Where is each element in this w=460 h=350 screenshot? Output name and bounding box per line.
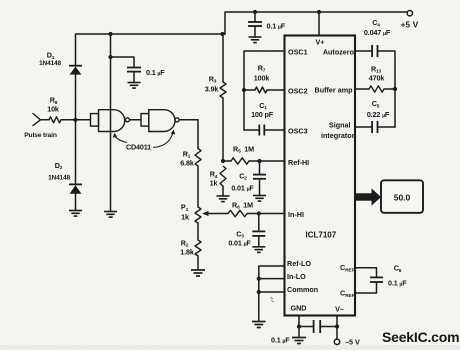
svg-text:1N4148: 1N4148 — [39, 60, 61, 67]
diode D1 — [69, 66, 82, 75]
wire below top-left cap to ground — [133, 72, 135, 82]
svg-text:V+: V+ — [316, 37, 325, 46]
ground below C3 — [252, 247, 265, 253]
wire R2 to ground — [197, 256, 199, 270]
svg-text:ICL7107: ICL7107 — [306, 230, 337, 239]
wire pulse input line — [41, 119, 50, 121]
display arrow — [355, 188, 381, 205]
svg-text:1k: 1k — [181, 212, 189, 221]
wire Ref-LO line — [259, 266, 285, 321]
wire R3 to Ref-HI node — [222, 98, 224, 161]
svg-text:Buffer amp: Buffer amp — [315, 86, 354, 95]
-5V terminal — [334, 339, 339, 344]
wire OSC3 line — [244, 129, 259, 131]
svg-text:–5 V: –5 V — [345, 338, 360, 347]
wire bottom cap — [299, 326, 313, 328]
wire 0.1uF branch at y=57 — [111, 57, 135, 67]
wire R4 to ground — [222, 186, 224, 196]
capacitor 0.1uF top-mid — [248, 22, 262, 26]
wire OSC1 loop — [244, 51, 285, 130]
ground below R4 — [217, 196, 230, 202]
capacitor C4 0.047uF — [372, 45, 377, 57]
svg-text:0.01 µF: 0.01 µF — [228, 239, 251, 248]
wire top-mid cap branch — [254, 12, 256, 22]
capacitor 0.1uF top-left — [127, 68, 141, 72]
CD4011 pointer arrow to U1b — [153, 130, 175, 148]
CD4011 pointer arrow to U1a — [113, 133, 127, 143]
wire D1 to D2 segment — [75, 75, 77, 185]
wire V- pin down — [336, 316, 338, 340]
wire OSC2 line — [244, 89, 255, 91]
svg-text:100k: 100k — [254, 73, 270, 82]
wire vertical rail x=111.5 down to ground — [110, 34, 112, 211]
svg-text:3.9k: 3.9k — [205, 84, 219, 93]
ground below top-mid cap — [249, 37, 262, 43]
ground below R2 — [191, 270, 205, 276]
svg-text:1.8k: 1.8k — [180, 247, 194, 256]
wire GND pin down — [298, 316, 300, 337]
capacitor C6 0.1uF — [370, 277, 383, 282]
wire Ref-HI line — [223, 160, 231, 162]
pulse input terminal chevron — [33, 114, 41, 126]
display box 50.0 — [381, 180, 423, 213]
P1 wiper arrow — [202, 211, 209, 216]
wire C3 branch — [258, 214, 260, 232]
capacitor C5 0.22uF — [372, 121, 377, 133]
nand gate U1a — [91, 110, 130, 132]
svg-text:0.1 µF: 0.1 µF — [388, 278, 407, 287]
ground below D2 — [69, 211, 82, 217]
wire P1 to R2 — [197, 223, 199, 240]
wire V+ pin — [318, 12, 320, 36]
wire top-left rail y=34 — [76, 34, 226, 65]
svg-text:R6 1M: R6 1M — [232, 200, 253, 210]
resistor R8 10k — [49, 117, 61, 123]
svg-text:0.01 µF: 0.01 µF — [231, 183, 254, 192]
svg-text:1k: 1k — [210, 179, 218, 188]
svg-text:Ref-LO: Ref-LO — [287, 259, 311, 268]
ground below C2 — [253, 196, 266, 202]
resistor R13 470k — [369, 86, 384, 92]
diode D2 — [69, 184, 82, 193]
wire In-LO line — [259, 278, 285, 280]
svg-text:Signal: Signal — [329, 120, 351, 129]
op-amp U1 ICL7107 body — [285, 36, 356, 316]
ground below x=111.5 rail — [104, 212, 117, 218]
+5V terminal — [407, 11, 412, 16]
svg-text:GND: GND — [291, 304, 307, 313]
wire CREF bottom — [355, 282, 377, 293]
ground below GND pin — [292, 338, 306, 344]
svg-text:Common: Common — [287, 285, 318, 294]
svg-text:0.1 µF: 0.1 µF — [146, 68, 165, 77]
wire gate2 out to R1 — [179, 120, 198, 149]
resistor R1 6.8k — [195, 149, 201, 166]
nand gate U1b — [141, 110, 179, 132]
svg-text:R5 1M: R5 1M — [233, 144, 254, 154]
resistor R4 1k — [220, 166, 226, 186]
resistor R6 1M — [228, 210, 247, 216]
wire R3 rail segment — [222, 34, 224, 82]
svg-text:In-LO: In-LO — [287, 272, 306, 281]
svg-text:In-HI: In-HI — [288, 210, 304, 219]
svg-text:OSC1: OSC1 — [288, 47, 308, 56]
svg-text:integrator: integrator — [321, 131, 355, 140]
ground below top-left cap — [128, 83, 141, 89]
wire In-HI line — [208, 213, 228, 215]
wire D2 to ground — [75, 194, 77, 210]
capacitor C1 100pF — [259, 125, 264, 136]
svg-text:Pulse train: Pulse train — [24, 132, 57, 139]
svg-text:470k: 470k — [369, 73, 385, 82]
svg-text:SeekIC.com: SeekIC.com — [382, 329, 459, 345]
svg-text:6.8k: 6.8k — [180, 158, 194, 167]
svg-text:Autozero: Autozero — [323, 47, 355, 56]
svg-text:0.1 µF: 0.1 µF — [267, 22, 286, 31]
svg-text:V–: V– — [335, 304, 344, 313]
svg-text:100 pF: 100 pF — [251, 110, 274, 119]
capacitor 0.1uF bottom — [314, 320, 321, 333]
capacitor C3 — [252, 231, 265, 236]
svg-text:OSC3: OSC3 — [288, 126, 308, 135]
wire Buffer amp line — [355, 88, 369, 90]
resistor R7 100k — [255, 87, 267, 93]
wire C2 branch — [259, 161, 261, 174]
wire Common line — [259, 291, 285, 293]
svg-text:10k: 10k — [47, 104, 59, 113]
ground below Ref-LO/In-LO/Common bus — [252, 322, 266, 328]
svg-text:+5 V: +5 V — [401, 21, 419, 30]
capacitor C2 — [253, 175, 266, 179]
wire Autozero line — [355, 50, 372, 52]
wire CREF top — [355, 268, 377, 277]
resistor R3 3.9k — [220, 82, 226, 98]
wire R1 to P1 — [197, 166, 199, 207]
svg-text:0.047 µF: 0.047 µF — [364, 28, 391, 37]
scan artifact squiggle — [270, 298, 274, 302]
wire gate1 out to gate2 in — [130, 119, 141, 121]
resistor R5 1M — [231, 158, 249, 164]
svg-text:OSC2: OSC2 — [288, 86, 308, 95]
svg-text:0.1 µF: 0.1 µF — [271, 335, 290, 344]
svg-text:0.22 µF: 0.22 µF — [367, 110, 390, 119]
svg-text:Ref-HI: Ref-HI — [288, 158, 309, 167]
svg-text:1N4148: 1N4148 — [48, 174, 70, 181]
wire jog up to +5V rail — [225, 12, 407, 34]
svg-text:CD4011: CD4011 — [126, 143, 151, 152]
wire R8 to gate1 input — [61, 119, 91, 121]
resistor R2 1.8k — [195, 240, 201, 256]
svg-text:50.0: 50.0 — [394, 193, 411, 203]
potentiometer P1 1k — [195, 207, 201, 223]
wire Signal integrator line — [355, 126, 372, 128]
